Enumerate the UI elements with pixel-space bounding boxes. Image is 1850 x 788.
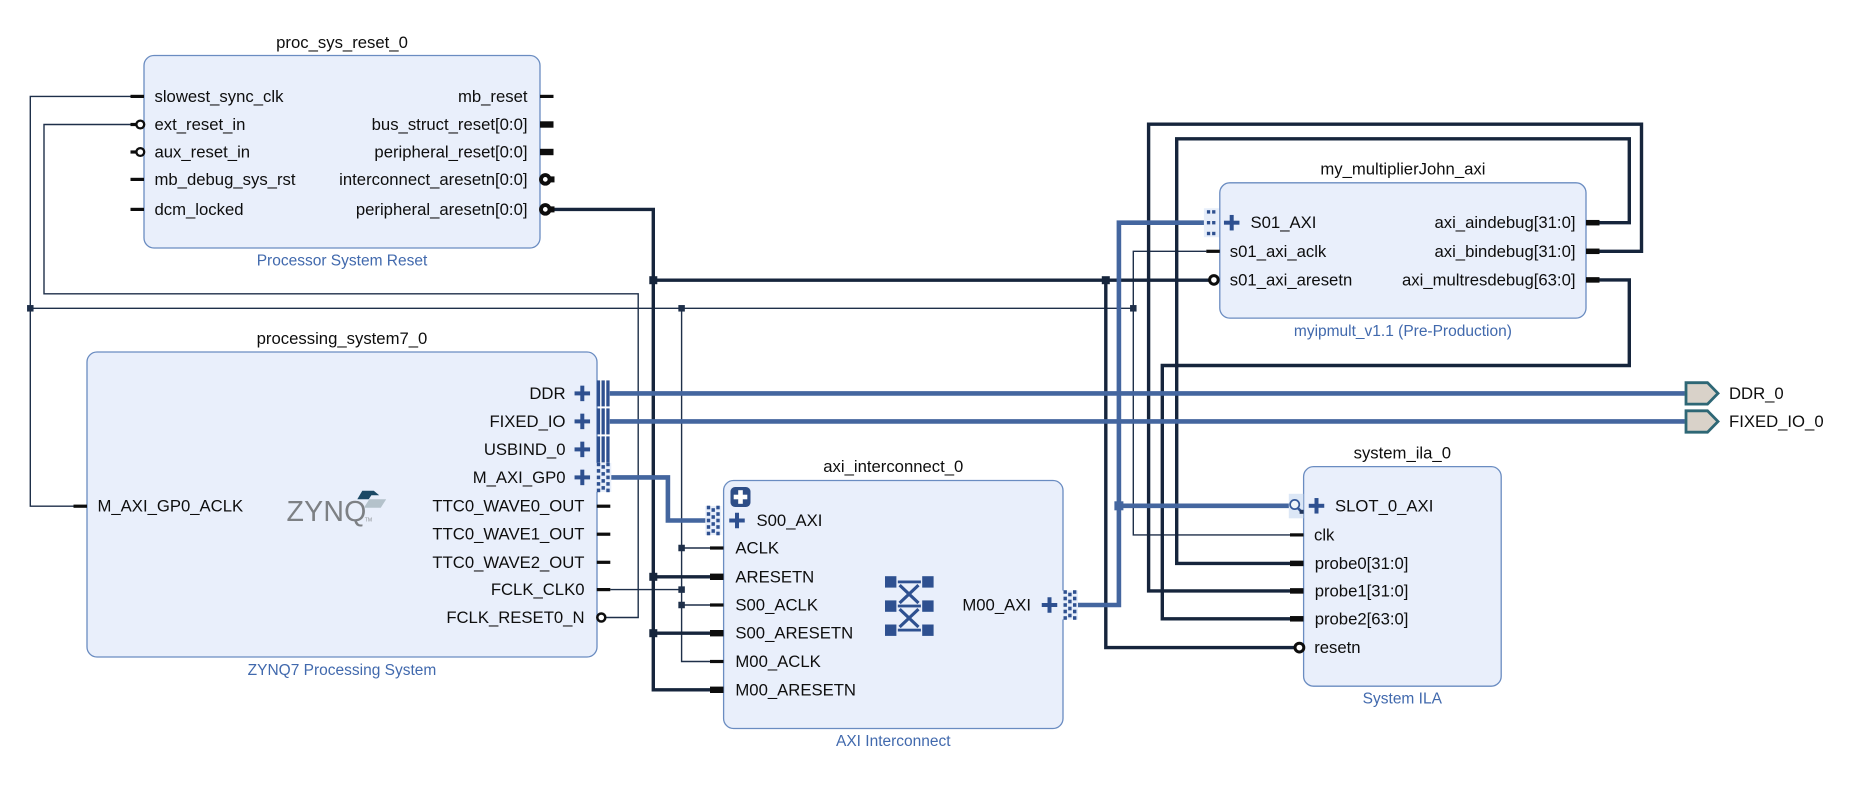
svg-text:axi_bindebug[31:0]: axi_bindebug[31:0] xyxy=(1434,242,1575,261)
interface pin M00_AXI xyxy=(1042,590,1078,620)
svg-text:probe2[63:0]: probe2[63:0] xyxy=(1315,609,1409,628)
svg-text:resetn: resetn xyxy=(1314,638,1360,657)
svg-text:ARESETN: ARESETN xyxy=(735,567,814,586)
pin mb_debug_sys_rst xyxy=(131,178,145,181)
svg-text:FCLK_CLK0: FCLK_CLK0 xyxy=(491,580,585,599)
svg-text:FIXED_IO_0: FIXED_IO_0 xyxy=(1729,412,1824,431)
pin TTC0_WAVE0_OUT xyxy=(597,505,611,508)
wire axi_bindebug to probe1 xyxy=(1149,124,1642,591)
svg-text:peripheral_reset[0:0]: peripheral_reset[0:0] xyxy=(374,143,527,162)
svg-text:ACLK: ACLK xyxy=(735,539,779,558)
svg-text:ZYNQ7 Processing System: ZYNQ7 Processing System xyxy=(248,662,437,679)
svg-text:M_AXI_GP0_ACLK: M_AXI_GP0_ACLK xyxy=(98,497,244,516)
interface pin DDR xyxy=(575,380,610,406)
svg-text:ZYNQ: ZYNQ xyxy=(287,496,367,528)
svg-text:dcm_locked: dcm_locked xyxy=(155,200,244,219)
pin interconnect_aresetn[0:0] xyxy=(541,175,555,184)
svg-text:s01_axi_aclk: s01_axi_aclk xyxy=(1230,242,1327,261)
logo ZYNQ xyxy=(287,491,387,528)
pin clk xyxy=(1290,533,1304,536)
block axi_interconnect_0 xyxy=(724,481,1063,729)
pin FCLK_RESET0_N xyxy=(597,614,605,622)
svg-text:DDR: DDR xyxy=(529,384,565,403)
svg-text:myipmult_v1.1 (Pre-Production): myipmult_v1.1 (Pre-Production) xyxy=(1294,323,1512,340)
interface pin SLOT_0_AXI magnifier xyxy=(1289,494,1324,519)
wire M00_AXI to S01_AXI and SLOT_0_AXI xyxy=(1077,223,1289,605)
pin s01_axi_aclk xyxy=(1206,250,1220,253)
svg-text:my_multiplierJohn_axi: my_multiplierJohn_axi xyxy=(1320,159,1485,178)
svg-text:TTC0_WAVE0_OUT: TTC0_WAVE0_OUT xyxy=(432,497,584,516)
pin resetn xyxy=(1295,643,1304,652)
svg-text:system_ila_0: system_ila_0 xyxy=(1354,443,1451,462)
wire clock net FCLK_CLK0 xyxy=(27,96,1290,661)
interface pin S00_AXI xyxy=(705,506,744,536)
svg-text:M00_ARESETN: M00_ARESETN xyxy=(735,680,856,699)
wire reset net FCLK_RESET0_N to ext_reset_in xyxy=(44,125,638,618)
svg-text:clk: clk xyxy=(1314,525,1335,544)
svg-text:slowest_sync_clk: slowest_sync_clk xyxy=(155,87,285,106)
pin S00_ARESETN xyxy=(710,630,724,636)
svg-text:System ILA: System ILA xyxy=(1363,691,1443,708)
interface pin S01_AXI xyxy=(1204,208,1240,237)
interface pin USBIND_0 xyxy=(575,436,610,462)
pin ACLK xyxy=(710,546,724,549)
pin ext_reset_in xyxy=(131,121,145,129)
svg-text:aux_reset_in: aux_reset_in xyxy=(155,143,251,162)
block processing_system7_0 xyxy=(87,352,597,657)
external port DDR_0 xyxy=(1686,383,1784,404)
wire M_AXI_GP0 to S00_AXI xyxy=(610,477,707,520)
svg-text:TM: TM xyxy=(365,518,372,524)
pin axi_aindebug[31:0] xyxy=(1586,220,1600,226)
pin peripheral_reset[0:0] xyxy=(540,149,554,155)
pin axi_bindebug[31:0] xyxy=(1586,249,1600,255)
icon crossbar xyxy=(885,576,934,636)
pin FCLK_CLK0 xyxy=(597,588,611,591)
wire axi_aindebug to probe0 xyxy=(1177,139,1630,564)
wire FIXED_IO interface xyxy=(610,419,1685,424)
pin axi_multresdebug[63:0] xyxy=(1586,277,1600,283)
pin M00_ACLK xyxy=(710,660,724,663)
pin M_AXI_GP0_ACLK xyxy=(74,505,88,508)
pin slowest_sync_clk xyxy=(131,95,145,98)
svg-text:axi_interconnect_0: axi_interconnect_0 xyxy=(823,457,963,476)
svg-text:M_AXI_GP0: M_AXI_GP0 xyxy=(473,468,566,487)
svg-text:M00_AXI: M00_AXI xyxy=(962,596,1031,615)
svg-text:FIXED_IO: FIXED_IO xyxy=(489,412,565,431)
svg-text:SLOT_0_AXI: SLOT_0_AXI xyxy=(1335,496,1433,515)
interface pin M_AXI_GP0 xyxy=(575,463,612,493)
svg-text:probe0[31:0]: probe0[31:0] xyxy=(1315,554,1409,573)
svg-text:M00_ACLK: M00_ACLK xyxy=(735,652,820,671)
wire axi_multresdebug to probe2 xyxy=(1162,280,1629,619)
svg-text:DDR_0: DDR_0 xyxy=(1729,384,1784,403)
svg-text:proc_sys_reset_0: proc_sys_reset_0 xyxy=(276,33,408,52)
svg-text:ext_reset_in: ext_reset_in xyxy=(155,115,246,134)
svg-text:USBIND_0: USBIND_0 xyxy=(484,440,566,459)
svg-text:S01_AXI: S01_AXI xyxy=(1251,213,1317,232)
svg-text:mb_debug_sys_rst: mb_debug_sys_rst xyxy=(155,170,296,189)
expand button xyxy=(731,487,751,507)
svg-text:TTC0_WAVE2_OUT: TTC0_WAVE2_OUT xyxy=(432,553,584,572)
interface pin FIXED_IO xyxy=(575,408,610,434)
svg-text:processing_system7_0: processing_system7_0 xyxy=(257,329,428,348)
svg-text:peripheral_aresetn[0:0]: peripheral_aresetn[0:0] xyxy=(356,200,528,219)
pin probe0[31:0] xyxy=(1290,561,1304,567)
pin probe1[31:0] xyxy=(1290,588,1304,594)
svg-text:TTC0_WAVE1_OUT: TTC0_WAVE1_OUT xyxy=(432,525,584,544)
block system_ila_0 xyxy=(1304,467,1502,687)
external port FIXED_IO_0 xyxy=(1686,411,1824,432)
svg-text:axi_aindebug[31:0]: axi_aindebug[31:0] xyxy=(1434,213,1575,232)
pin probe2[63:0] xyxy=(1290,616,1304,622)
svg-text:S00_AXI: S00_AXI xyxy=(757,511,823,530)
svg-text:axi_multresdebug[63:0]: axi_multresdebug[63:0] xyxy=(1402,270,1575,289)
wire DDR interface xyxy=(610,391,1685,396)
svg-text:FCLK_RESET0_N: FCLK_RESET0_N xyxy=(446,608,584,627)
block proc_sys_reset_0 xyxy=(144,56,540,249)
pin peripheral_aresetn[0:0] xyxy=(541,205,555,214)
pin s01_axi_aresetn xyxy=(1210,276,1219,285)
svg-text:S00_ARESETN: S00_ARESETN xyxy=(735,624,853,643)
pin M00_ARESETN xyxy=(710,687,724,693)
svg-text:s01_axi_aresetn: s01_axi_aresetn xyxy=(1230,270,1352,289)
svg-text:interconnect_aresetn[0:0]: interconnect_aresetn[0:0] xyxy=(339,170,527,189)
pin ARESETN xyxy=(710,574,724,580)
pin TTC0_WAVE2_OUT xyxy=(597,561,611,564)
svg-text:bus_struct_reset[0:0]: bus_struct_reset[0:0] xyxy=(372,115,528,134)
svg-text:S00_ACLK: S00_ACLK xyxy=(735,596,818,615)
pin dcm_locked xyxy=(131,208,145,211)
pin mb_reset xyxy=(540,95,554,98)
svg-text:AXI Interconnect: AXI Interconnect xyxy=(836,733,951,750)
block my_multiplierJohn_axi xyxy=(1220,183,1586,318)
svg-text:Processor System Reset: Processor System Reset xyxy=(257,252,428,269)
svg-text:probe1[31:0]: probe1[31:0] xyxy=(1315,581,1409,600)
wire peripheral_aresetn net xyxy=(554,209,1295,689)
pin TTC0_WAVE1_OUT xyxy=(597,533,611,536)
pin aux_reset_in xyxy=(131,148,145,156)
svg-text:mb_reset: mb_reset xyxy=(458,87,528,106)
pin S00_ACLK xyxy=(710,603,724,606)
pin bus_struct_reset[0:0] xyxy=(540,121,554,127)
